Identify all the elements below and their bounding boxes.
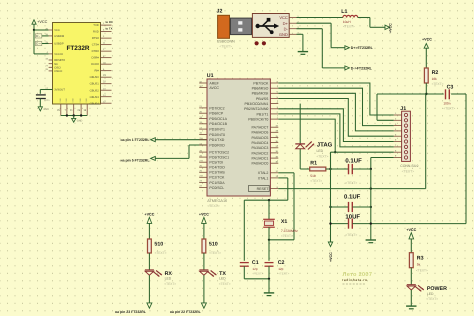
- svg-text:<TEXT>: <TEXT>: [209, 251, 221, 255]
- svg-text:USBCONN: USBCONN: [217, 39, 235, 43]
- svg-text:PC6/TOSC1: PC6/TOSC1: [209, 155, 229, 159]
- svg-text:D-: D-: [284, 26, 289, 31]
- svg-text:на pin 23 FT232RL: на pin 23 FT232RL: [115, 310, 147, 314]
- svg-text:OSCO: OSCO: [54, 70, 62, 73]
- svg-text:DTR#: DTR#: [92, 50, 100, 53]
- svg-text:5k: 5k: [417, 263, 421, 267]
- svg-text:0.1UF: 0.1UF: [345, 158, 362, 165]
- svg-text:<TEXT>: <TEXT>: [345, 233, 357, 237]
- svg-text:PD1/TXD: PD1/TXD: [209, 138, 224, 142]
- svg-text:LED: LED: [317, 149, 324, 153]
- svg-text:GND: GND: [85, 98, 88, 103]
- svg-text:PA2/ADC2: PA2/ADC2: [252, 151, 269, 155]
- svg-text:radiohata.ru: radiohata.ru: [342, 278, 368, 282]
- svg-text:GND: GND: [72, 98, 75, 103]
- svg-text:LED: LED: [165, 277, 172, 281]
- svg-text:C2: C2: [278, 260, 285, 266]
- svg-text:510: 510: [209, 241, 218, 247]
- svg-text:PD2/INT0: PD2/INT0: [209, 133, 225, 137]
- svg-text:CBUS0: CBUS0: [90, 76, 100, 79]
- svg-text:USBDP: USBDP: [54, 43, 64, 46]
- svg-text:3V3OUT: 3V3OUT: [54, 89, 65, 92]
- svg-text:<TEXT>: <TEXT>: [317, 154, 329, 158]
- svg-text:PA0/ADC0: PA0/ADC0: [252, 162, 269, 166]
- svg-text:PC7/TOSC2: PC7/TOSC2: [209, 150, 229, 154]
- svg-text:<TEXT>: <TEXT>: [219, 45, 232, 49]
- svg-text:+VCC: +VCC: [406, 228, 416, 232]
- svg-text:DSR#: DSR#: [91, 57, 99, 60]
- svg-text:<TEXT>: <TEXT>: [281, 234, 293, 238]
- svg-text:<TEXT>: <TEXT>: [416, 269, 428, 273]
- svg-text:CBUS3: CBUS3: [90, 96, 100, 99]
- svg-text:USBDM: USBDM: [54, 35, 65, 38]
- svg-text:на pin 22 FT232RL: на pin 22 FT232RL: [170, 310, 202, 314]
- svg-text:<TEXT>: <TEXT>: [345, 181, 357, 185]
- svg-text:XTAL1: XTAL1: [258, 176, 269, 180]
- svg-text:XTAL2: XTAL2: [258, 171, 269, 175]
- svg-text:POWER: POWER: [427, 286, 447, 292]
- svg-text:0.1UF: 0.1UF: [344, 194, 361, 201]
- svg-text:FT232R: FT232R: [66, 45, 89, 52]
- svg-text:TXD: TXD: [93, 24, 99, 27]
- svg-text:PB5/MOSI: PB5/MOSI: [252, 92, 269, 96]
- svg-text:+VCC: +VCC: [422, 38, 432, 42]
- svg-text:12p: 12p: [252, 267, 257, 271]
- svg-text:<TEXT>: <TEXT>: [443, 106, 455, 110]
- svg-text:RXD: RXD: [93, 31, 99, 34]
- svg-text:7.3728MHz: 7.3728MHz: [281, 229, 298, 233]
- svg-text:C3: C3: [447, 84, 454, 90]
- svg-text:<TEXT>: <TEXT>: [164, 282, 176, 286]
- svg-text:OSCI: OSCI: [54, 66, 61, 69]
- svg-text:PB4/SS: PB4/SS: [256, 97, 269, 101]
- svg-text:D+>FT232RL: D+>FT232RL: [351, 46, 374, 50]
- svg-text:<TEXT>: <TEXT>: [278, 272, 289, 276]
- svg-text:to RX: to RX: [106, 20, 113, 24]
- svg-text:Лето 2007: Лето 2007: [343, 272, 373, 278]
- svg-text:GND: GND: [77, 120, 83, 123]
- svg-text:PB2/INT2/AIN0: PB2/INT2/AIN0: [244, 107, 268, 111]
- svg-text:PC1/SDA: PC1/SDA: [209, 181, 225, 185]
- svg-text:+VCC: +VCC: [329, 252, 333, 262]
- svg-text:VCC: VCC: [279, 15, 288, 20]
- svg-text:на pin 1 FT232RL: на pin 1 FT232RL: [121, 138, 151, 142]
- svg-text:100n: 100n: [44, 99, 50, 102]
- svg-text:X1: X1: [281, 219, 288, 225]
- svg-text:C1: C1: [252, 260, 259, 266]
- svg-text:PA1/ADC1: PA1/ADC1: [252, 156, 269, 160]
- svg-text:+VCC: +VCC: [388, 23, 392, 33]
- svg-text:D->FT232RL: D->FT232RL: [351, 66, 373, 70]
- svg-text:<TEXT>: <TEXT>: [343, 25, 355, 29]
- svg-text:AREF: AREF: [209, 81, 219, 85]
- svg-text:<TEXT>: <TEXT>: [402, 170, 415, 174]
- svg-text:+VCC: +VCC: [37, 20, 47, 24]
- svg-text:PC3/TMS: PC3/TMS: [209, 171, 225, 175]
- svg-text:R1: R1: [310, 161, 317, 167]
- svg-text:U1: U1: [207, 73, 214, 79]
- svg-text:GND: GND: [59, 98, 62, 103]
- svg-text:PA5/ADC5: PA5/ADC5: [252, 136, 269, 140]
- svg-text:10k: 10k: [432, 77, 438, 81]
- svg-text:510: 510: [154, 241, 163, 247]
- svg-text:PD4/OC1B: PD4/OC1B: [209, 122, 227, 126]
- svg-text:PC4/TDO: PC4/TDO: [209, 166, 225, 170]
- svg-text:GND: GND: [79, 98, 82, 103]
- svg-text:PD0/RXD: PD0/RXD: [209, 143, 225, 147]
- svg-text:PA6/ADC6: PA6/ADC6: [252, 131, 269, 135]
- svg-text:CBUS2: CBUS2: [90, 89, 100, 92]
- svg-text:R3: R3: [417, 255, 424, 261]
- svg-text:PD7/OC2: PD7/OC2: [209, 106, 224, 110]
- svg-text:+VCC: +VCC: [144, 212, 154, 216]
- svg-text:CBUS1: CBUS1: [90, 83, 100, 86]
- svg-text:на pin 5 FT232RL: на pin 5 FT232RL: [121, 159, 151, 163]
- svg-text:PA7/ADC7: PA7/ADC7: [252, 126, 269, 130]
- svg-text:PB6/MISO: PB6/MISO: [252, 87, 269, 91]
- svg-text:+VCC: +VCC: [199, 212, 209, 216]
- svg-text:JTAG: JTAG: [317, 141, 333, 148]
- svg-text:<TEXT>: <TEXT>: [155, 251, 167, 255]
- svg-text:CBUS4: CBUS4: [90, 102, 100, 105]
- svg-text:GND: GND: [65, 98, 68, 103]
- svg-text:<TEXT>: <TEXT>: [432, 82, 444, 86]
- svg-text:10UF: 10UF: [345, 214, 360, 221]
- svg-text:<TEXT>: <TEXT>: [207, 204, 220, 208]
- svg-text:AVCC: AVCC: [209, 86, 219, 90]
- svg-text:D -: D -: [36, 34, 40, 38]
- svg-text:RESET: RESET: [257, 187, 270, 191]
- svg-text:VCCIO: VCCIO: [54, 53, 63, 56]
- svg-text:PD3/INT1: PD3/INT1: [209, 127, 225, 131]
- svg-text:510: 510: [310, 174, 316, 178]
- svg-text:RESET#: RESET#: [54, 59, 65, 62]
- svg-text:PC2/TCK: PC2/TCK: [209, 176, 225, 180]
- svg-text:<TEXT>: <TEXT>: [219, 282, 231, 286]
- svg-text:NC: NC: [54, 63, 58, 66]
- svg-text:D +: D +: [36, 42, 41, 46]
- svg-text:12p: 12p: [278, 267, 283, 271]
- svg-text:<TEXT>: <TEXT>: [426, 297, 438, 301]
- svg-text:R2: R2: [432, 70, 439, 76]
- svg-text:PD6/ICP: PD6/ICP: [209, 112, 223, 116]
- svg-text:PB1/T1: PB1/T1: [257, 112, 269, 116]
- svg-text:RI#: RI#: [95, 70, 100, 73]
- svg-text:PB0/XCK/T0: PB0/XCK/T0: [248, 117, 268, 121]
- svg-text:GND: GND: [279, 32, 288, 37]
- svg-text:GND: GND: [43, 108, 49, 111]
- svg-text:PC0/SCL: PC0/SCL: [209, 186, 224, 190]
- svg-text:L1: L1: [341, 9, 347, 15]
- svg-text:PA4/ADC4: PA4/ADC4: [252, 141, 269, 145]
- svg-text:PA3/ADC3: PA3/ADC3: [252, 146, 269, 150]
- svg-text:PB3/OC0/AIN1: PB3/OC0/AIN1: [245, 102, 269, 106]
- svg-text:PC5/TDI: PC5/TDI: [209, 161, 223, 165]
- svg-text:ATMEGA16: ATMEGA16: [207, 199, 227, 203]
- svg-text:LED: LED: [219, 277, 226, 281]
- svg-text:D+: D+: [283, 21, 289, 26]
- svg-text:CTS#: CTS#: [92, 44, 100, 47]
- svg-text:<TEXT>: <TEXT>: [252, 272, 263, 276]
- svg-text:<TEXT>: <TEXT>: [310, 179, 322, 183]
- svg-text:CONN-SIL9: CONN-SIL9: [400, 164, 418, 168]
- svg-text:LED: LED: [427, 292, 434, 296]
- svg-text:DCD#: DCD#: [91, 63, 99, 66]
- svg-text:PB7/SCK: PB7/SCK: [253, 81, 269, 85]
- svg-text:10uH: 10uH: [343, 20, 351, 24]
- svg-text:J2: J2: [217, 8, 223, 14]
- svg-text:100n: 100n: [443, 101, 450, 105]
- svg-text:RTS#: RTS#: [92, 37, 99, 40]
- svg-text:to TX: to TX: [106, 27, 113, 31]
- svg-text:PD5/OC1A: PD5/OC1A: [209, 117, 227, 121]
- svg-text:VCC: VCC: [54, 29, 60, 32]
